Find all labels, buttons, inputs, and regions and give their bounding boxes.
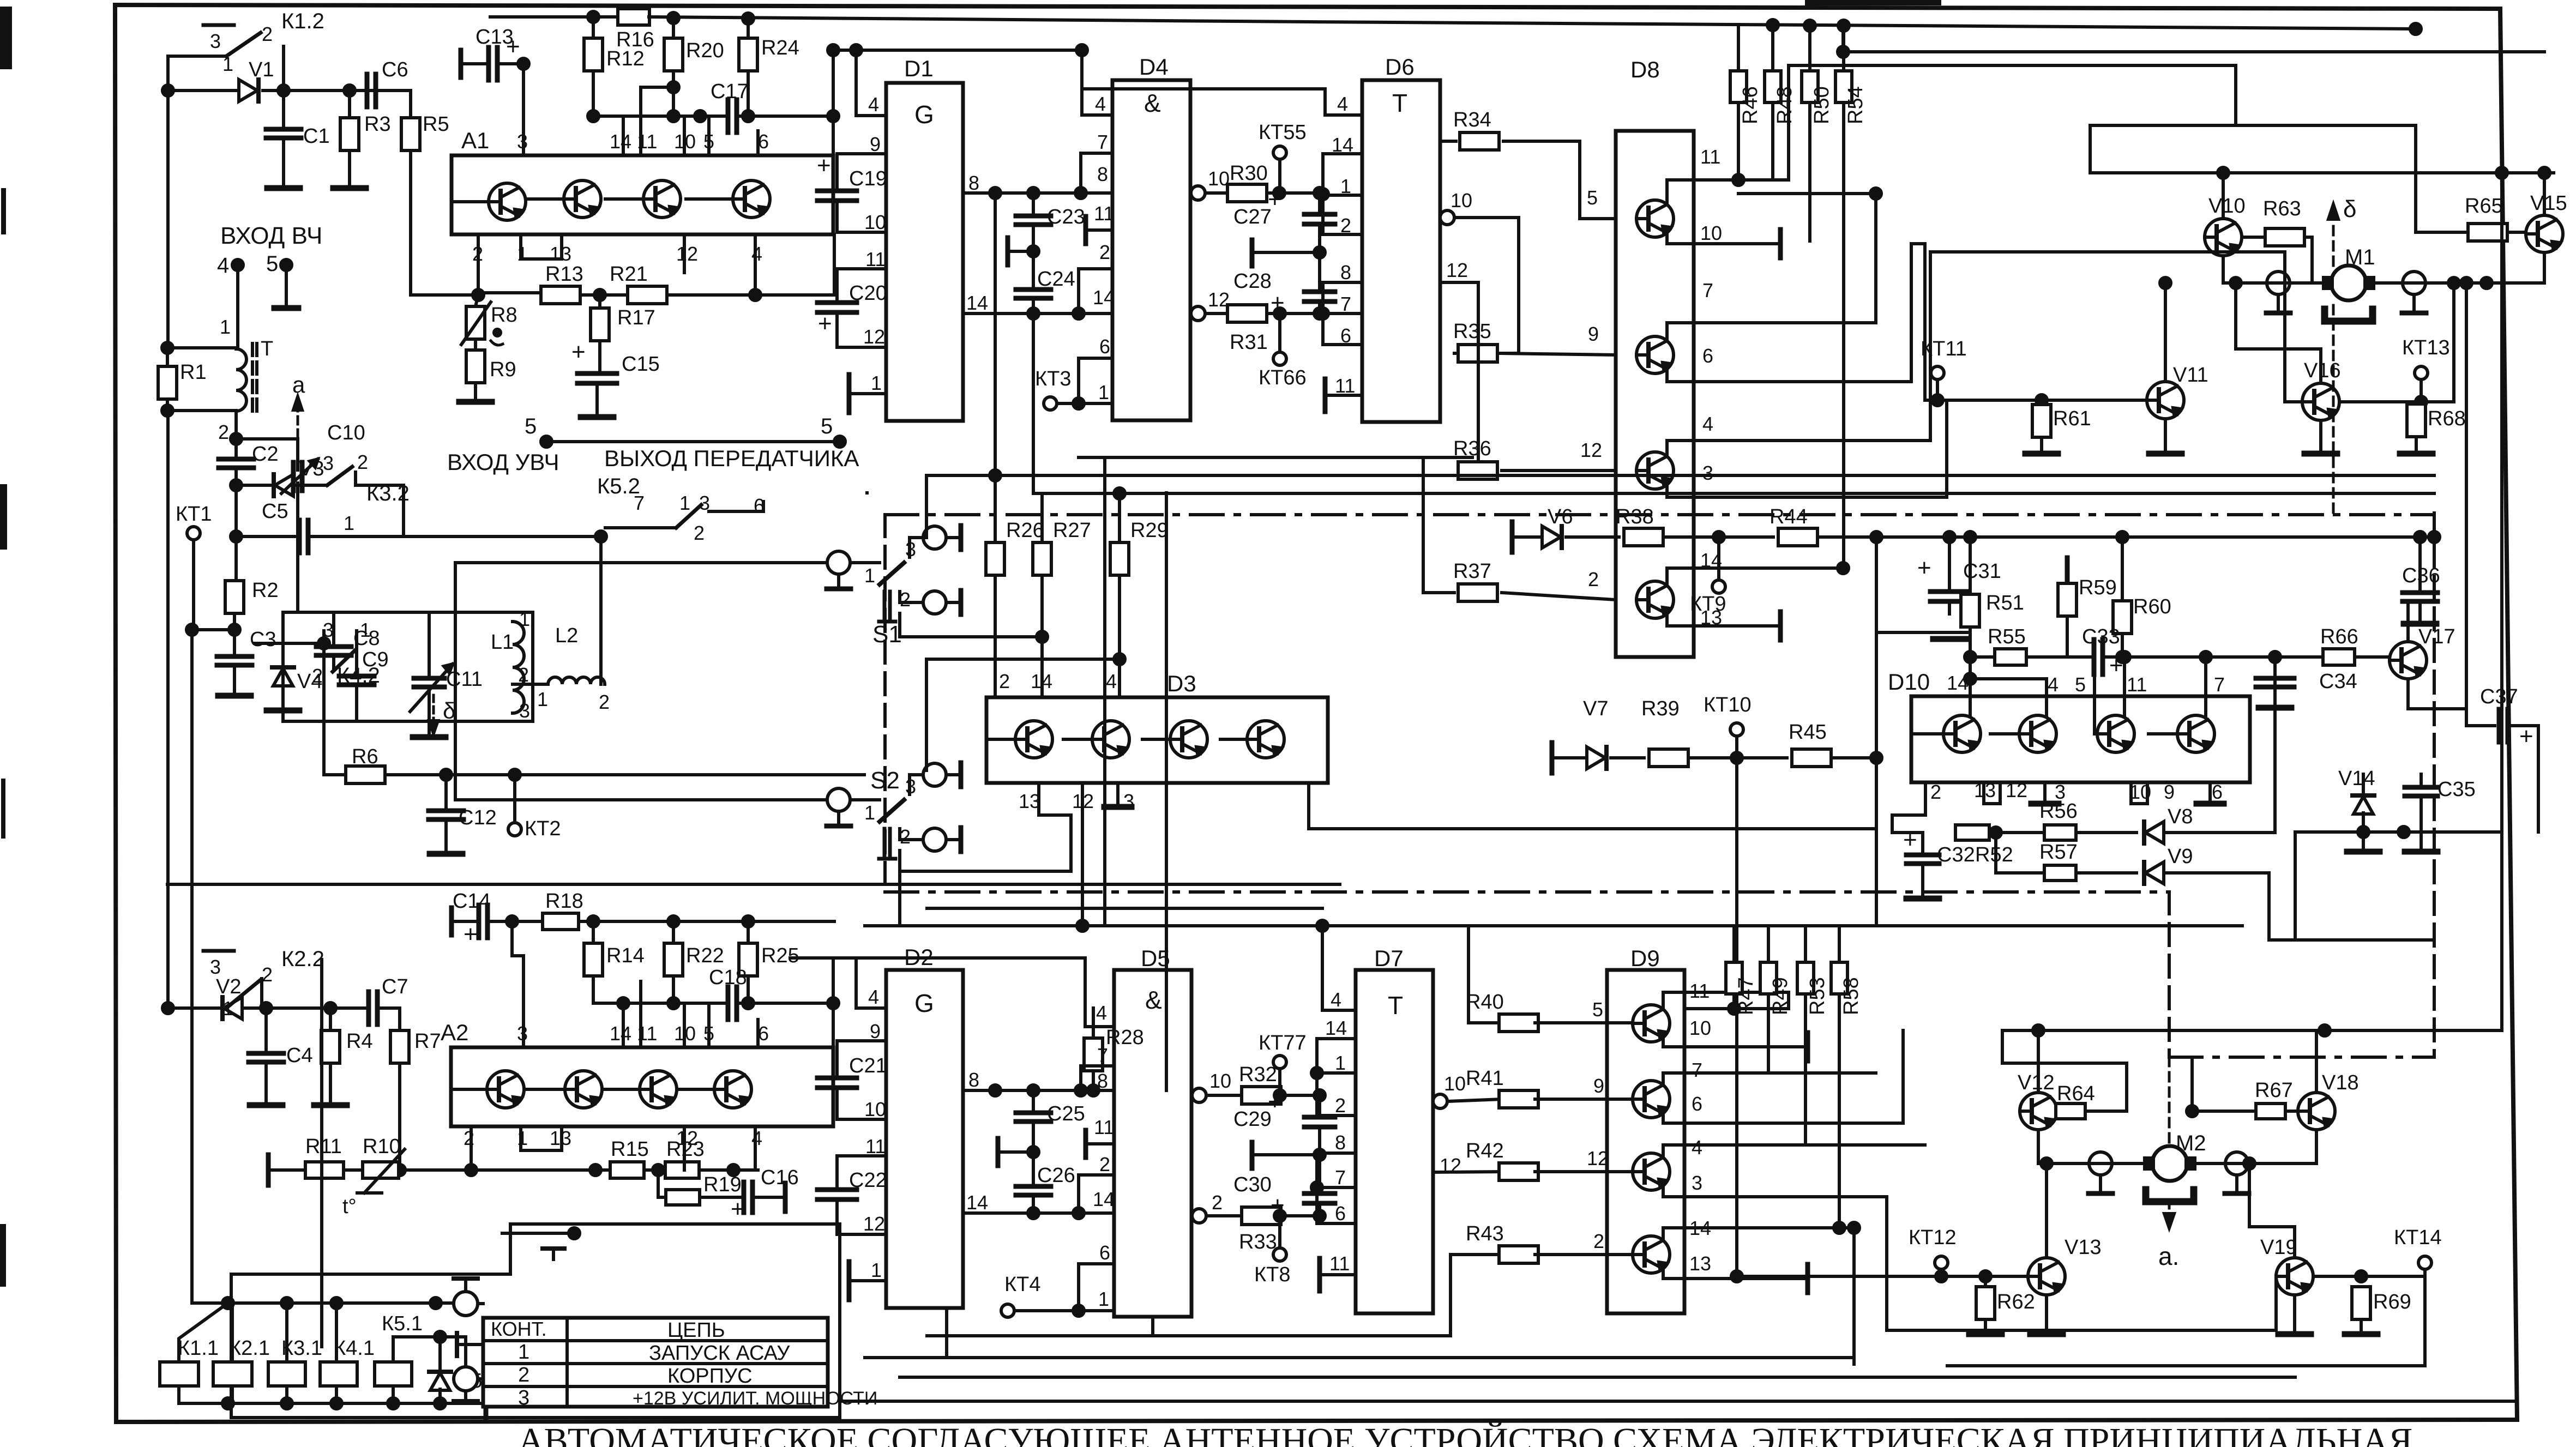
wire V15 collector bbox=[2543, 173, 2546, 215]
wire C34 bottom bbox=[2273, 688, 2277, 706]
junction bbox=[2398, 827, 2409, 837]
junction bbox=[828, 111, 839, 122]
wire R50 stem bottom bbox=[1808, 103, 1811, 241]
svg-text:C21: C21 bbox=[849, 1054, 887, 1077]
wire D7 pin7 stub bbox=[1317, 1186, 1356, 1189]
junction bbox=[2200, 652, 2211, 662]
junction bbox=[1871, 532, 1882, 542]
wire R53 stem bottom bbox=[1804, 994, 1807, 1145]
junction bbox=[1028, 1147, 1039, 1157]
ground under C34 bbox=[2259, 705, 2291, 711]
wire C3 bottom bbox=[233, 665, 236, 694]
svg-text:t°: t° bbox=[342, 1195, 357, 1218]
wire K1.2 pin2 lead bbox=[282, 46, 285, 91]
resistor R43 bbox=[1499, 1246, 1538, 1263]
wire C25-C26 tap bbox=[998, 1150, 1033, 1154]
svg-text:9: 9 bbox=[870, 1020, 881, 1042]
ground under D10 pin3 bbox=[2031, 801, 2059, 807]
ground under D10 pin6 bbox=[2196, 801, 2224, 807]
svg-text:R7: R7 bbox=[414, 1030, 441, 1053]
junction bbox=[2481, 278, 2492, 288]
wire D2 pin10 stub bbox=[837, 1118, 886, 1121]
wire R67 lead b bbox=[2286, 1110, 2298, 1113]
transistor D9 transistor 4 bbox=[1633, 1236, 1670, 1273]
svg-text:4: 4 bbox=[2048, 673, 2059, 696]
wire R20 stem top bbox=[672, 18, 675, 38]
contact K3.2 blade bbox=[327, 467, 352, 485]
svg-text:L2: L2 bbox=[555, 624, 578, 647]
svg-text:9: 9 bbox=[1593, 1075, 1604, 1097]
resistor R9 bbox=[466, 350, 485, 383]
S1 actuator bbox=[883, 592, 887, 622]
test point KT12 bbox=[1935, 1256, 1948, 1269]
svg-text:V14: V14 bbox=[2338, 767, 2375, 790]
wire R35 lead a bbox=[1454, 218, 1519, 353]
svg-text:R28: R28 bbox=[1106, 1026, 1144, 1049]
wire left edge of mid rails bbox=[865, 491, 869, 495]
svg-text:C30: C30 bbox=[1233, 1173, 1272, 1196]
wire bottom right row bbox=[1947, 1364, 2425, 1367]
junction bbox=[1871, 752, 1882, 763]
S2 lower contact bbox=[923, 828, 946, 851]
wire S2 pin3 riser bbox=[925, 659, 928, 770]
junction bbox=[750, 290, 761, 300]
wire R29 stem top bbox=[1118, 493, 1121, 542]
wire mid vertical b bbox=[1165, 493, 1168, 926]
wire R14 stem bottom bbox=[592, 976, 595, 1003]
dashed box left bbox=[883, 515, 887, 892]
motor M2 bbox=[2152, 1146, 2187, 1181]
resistor R65 bbox=[2468, 224, 2507, 241]
svg-text:КТ8: КТ8 bbox=[1254, 1263, 1290, 1286]
wire C33-R66 wire bbox=[2102, 655, 2323, 659]
D7 pin 10 circle bbox=[1433, 1094, 1447, 1108]
wire R62 bottom bbox=[1984, 1319, 1987, 1332]
wire D10 pin2 stub bbox=[1892, 782, 1925, 833]
junction bbox=[1838, 46, 1849, 57]
svg-text:G: G bbox=[914, 100, 934, 129]
svg-text:R48: R48 bbox=[1773, 86, 1796, 124]
junction bbox=[2448, 278, 2459, 288]
wire S2 wire down bbox=[898, 851, 901, 926]
junction bbox=[1073, 1305, 1084, 1316]
wire D7 pin8 stub bbox=[1317, 1151, 1356, 1155]
wire L1 tap bbox=[513, 683, 548, 686]
junction bbox=[430, 1298, 441, 1309]
capacitor C17 bbox=[726, 100, 731, 132]
wire C23 stem top bbox=[1032, 193, 1035, 215]
wire R28 stem bottom bbox=[1092, 1071, 1095, 1090]
wire C28 stem bottom bbox=[1318, 302, 1321, 313]
svg-text:4: 4 bbox=[1337, 93, 1348, 115]
junction bbox=[162, 342, 173, 353]
svg-text:R62: R62 bbox=[1997, 1291, 2035, 1313]
junction bbox=[1073, 1208, 1084, 1219]
wire R52 lead b bbox=[1989, 831, 2044, 834]
wire pin5 stub bbox=[285, 265, 288, 306]
svg-text:R58: R58 bbox=[1840, 977, 1863, 1015]
resistor R13 bbox=[541, 286, 580, 304]
wire D1 pin8 wire bbox=[963, 191, 1112, 195]
junction bbox=[588, 111, 599, 122]
svg-text:D8: D8 bbox=[1630, 57, 1660, 82]
wire D8 t3 emitter bbox=[1667, 485, 1947, 497]
svg-text:КТ66: КТ66 bbox=[1259, 366, 1307, 389]
junction bbox=[695, 111, 706, 122]
wire S2 pin3 lead bbox=[910, 775, 923, 794]
svg-text:V18: V18 bbox=[2322, 1071, 2359, 1094]
V6 input terminal bbox=[1510, 522, 1515, 552]
connector table frame bbox=[483, 1318, 828, 1407]
svg-text:КТ12: КТ12 bbox=[1909, 1226, 1957, 1249]
svg-text:R12: R12 bbox=[606, 47, 645, 70]
C25-C26 tap terminal bbox=[996, 1138, 1001, 1166]
resistor R10 bbox=[363, 1162, 399, 1178]
C16 terminal bbox=[783, 1183, 788, 1211]
svg-text:3: 3 bbox=[210, 956, 221, 978]
svg-text:C20: C20 bbox=[849, 282, 887, 305]
ground under C32 bbox=[1906, 896, 1939, 902]
wire V4 bottom bbox=[281, 686, 285, 708]
wire R26 stem top bbox=[994, 475, 997, 542]
link a dashed arrow bbox=[297, 403, 299, 436]
wire rail 5 bbox=[1945, 496, 1948, 499]
wire R7 bottom bbox=[398, 1063, 401, 1170]
svg-text:6: 6 bbox=[758, 1022, 769, 1045]
transistor D10 transistor 4 bbox=[2177, 715, 2214, 752]
wire C23-C24 tap bbox=[1008, 250, 1033, 253]
wire D5 pin4 riser bbox=[1084, 958, 1087, 1027]
diode V3 bbox=[275, 474, 293, 496]
D9 t4 emitter bar bbox=[1805, 1264, 1810, 1293]
wire C23 chain down bbox=[1033, 313, 1042, 493]
svg-text:V2: V2 bbox=[216, 975, 241, 998]
svg-text:R53: R53 bbox=[1806, 977, 1829, 1015]
junction bbox=[728, 1165, 739, 1175]
wire KT2 stem bbox=[513, 775, 516, 823]
wire D10 pin3 stub bbox=[2043, 782, 2047, 801]
IC D6 bbox=[1362, 80, 1440, 422]
wire bottom long bus 1 bbox=[927, 1334, 1450, 1337]
svg-text:C24: C24 bbox=[1037, 268, 1075, 291]
resistor R1 bbox=[158, 366, 177, 399]
svg-text:R44: R44 bbox=[1770, 505, 1808, 528]
wire R23 right bbox=[699, 1168, 758, 1172]
transistor D3 transistor 1 bbox=[1015, 721, 1052, 758]
wire V16 emitter bbox=[2319, 420, 2322, 451]
zener V5 bbox=[430, 1373, 450, 1390]
junction bbox=[2358, 827, 2369, 837]
test point KT8 bbox=[1273, 1248, 1286, 1261]
junction bbox=[1965, 532, 1976, 542]
svg-text:7: 7 bbox=[1340, 293, 1351, 315]
wire V9 right bbox=[2166, 873, 2434, 940]
svg-text:R34: R34 bbox=[1453, 108, 1491, 131]
junction bbox=[1114, 654, 1125, 665]
table column divider bbox=[565, 1318, 569, 1407]
wire KT1 stem bbox=[192, 540, 195, 630]
test point KT5 bbox=[1273, 146, 1286, 159]
svg-text:К1.1: К1.1 bbox=[178, 1337, 219, 1360]
D5 pin 10 circle bbox=[1192, 1088, 1206, 1102]
resistor R50 bbox=[1802, 71, 1818, 103]
transistor V13 bbox=[2028, 1258, 2065, 1295]
svg-text:5: 5 bbox=[821, 414, 833, 438]
svg-text:R52: R52 bbox=[1975, 843, 2013, 866]
junction bbox=[1314, 308, 1325, 319]
junction bbox=[261, 1003, 272, 1014]
wire C14 riser bbox=[512, 921, 523, 956]
connector section box bbox=[231, 1224, 840, 1418]
wire C7 right bbox=[377, 1008, 400, 1030]
wire rail 3 bbox=[1738, 192, 1876, 195]
wire C13 left lead bbox=[461, 62, 487, 65]
resistor R30 bbox=[1227, 184, 1267, 202]
wire C5 row right bbox=[308, 535, 404, 538]
svg-text:R26: R26 bbox=[1006, 519, 1044, 542]
ground under R61 bbox=[2025, 451, 2058, 457]
svg-text:7: 7 bbox=[1097, 131, 1108, 153]
svg-text:R4: R4 bbox=[346, 1030, 373, 1053]
svg-text:R42: R42 bbox=[1466, 1139, 1504, 1162]
wire C4 stem bbox=[264, 1008, 268, 1052]
svg-text:КТ14: КТ14 bbox=[2394, 1226, 2442, 1249]
wire R67 lead a bbox=[2192, 1110, 2256, 1113]
resistor R7 bbox=[390, 1030, 409, 1063]
junction bbox=[990, 188, 1001, 198]
svg-text:1: 1 bbox=[517, 243, 528, 265]
svg-text:R39: R39 bbox=[1641, 697, 1680, 720]
resistor R36 bbox=[1458, 462, 1497, 479]
svg-text:2: 2 bbox=[1588, 568, 1599, 590]
junction bbox=[1804, 20, 1815, 31]
wire R41 lead a bbox=[1447, 1099, 1502, 1101]
junction bbox=[2218, 167, 2229, 178]
svg-text:14: 14 bbox=[1093, 1188, 1115, 1210]
relay bus terminal bbox=[484, 1388, 489, 1419]
svg-text:1: 1 bbox=[360, 619, 371, 641]
capacitor C10 bbox=[291, 462, 296, 491]
svg-text:10: 10 bbox=[864, 211, 886, 233]
wire R39-R45 bbox=[1688, 756, 1787, 759]
svg-text:D2: D2 bbox=[904, 944, 934, 970]
wire R34 lead a bbox=[1440, 140, 1456, 143]
wire K4.2 pin3 lead bbox=[322, 631, 326, 643]
wire R5 to R13 row bbox=[411, 150, 478, 295]
wire C14 left lead bbox=[452, 920, 477, 923]
svg-text:9: 9 bbox=[870, 133, 881, 155]
wire R11-R10 bbox=[344, 1168, 361, 1172]
svg-text:R66: R66 bbox=[2320, 625, 2358, 648]
svg-text:C6: C6 bbox=[382, 58, 408, 81]
transistor A1 transistor 1 bbox=[489, 183, 526, 220]
svg-text:8: 8 bbox=[968, 172, 979, 194]
svg-text:1: 1 bbox=[519, 608, 530, 630]
transistor V19 bbox=[2276, 1258, 2313, 1295]
diode V6 bbox=[1542, 526, 1561, 548]
svg-text:11: 11 bbox=[865, 1135, 886, 1157]
transistor D8 transistor 1 bbox=[1636, 200, 1674, 237]
svg-text:14: 14 bbox=[610, 130, 631, 153]
capacitor C35 bbox=[2405, 785, 2437, 790]
svg-text:8: 8 bbox=[1097, 1070, 1108, 1092]
wire V12 collector bbox=[2037, 1030, 2040, 1093]
wire A1 pin4 stub bbox=[754, 234, 757, 295]
transistor A1 transistor 3 bbox=[643, 180, 681, 218]
wire R12 stem bottom bbox=[592, 71, 595, 116]
wire D6 pin4 stub bbox=[1325, 113, 1362, 117]
wire D10 pin11 riser bbox=[2123, 657, 2126, 715]
D1 pin1 terminal bbox=[847, 375, 852, 413]
wire R65 lead b bbox=[2511, 231, 2526, 234]
junction bbox=[1965, 673, 1976, 684]
capacitor C28 bbox=[1304, 290, 1335, 294]
wire C9 bottom bbox=[355, 685, 358, 721]
wire D2 pin8 wire bbox=[963, 1089, 1114, 1092]
wire R43 lead a bbox=[1450, 1253, 1502, 1256]
svg-text:V3: V3 bbox=[299, 457, 324, 480]
wire R51 stem top bbox=[1969, 537, 1972, 594]
svg-text:C5: C5 bbox=[262, 500, 288, 523]
wire R64 lead a bbox=[2056, 1110, 2057, 1113]
wire C26 stem bottom bbox=[1032, 1196, 1035, 1213]
resistor R23 bbox=[665, 1162, 699, 1178]
wire D5 pin4 stub bbox=[1085, 1025, 1114, 1028]
wire right row leg bbox=[2294, 832, 2297, 940]
wire R5 feed bbox=[409, 91, 412, 119]
svg-text:11: 11 bbox=[1094, 1116, 1114, 1138]
svg-text:6: 6 bbox=[758, 130, 769, 153]
wire C12 bottom bbox=[444, 820, 448, 852]
capacitor C1 bbox=[266, 127, 301, 132]
R11 input terminal bbox=[266, 1155, 271, 1185]
svg-text:a: a bbox=[292, 372, 305, 397]
svg-text:C35: C35 bbox=[2437, 778, 2476, 801]
wire D2 pin12 stub bbox=[837, 1233, 886, 1236]
svg-text:2: 2 bbox=[900, 588, 911, 611]
wire D8 t4 collector bbox=[1667, 568, 1843, 586]
zener V14 bbox=[2354, 797, 2373, 814]
wire C10 to box bbox=[296, 483, 299, 612]
test point KT14 bbox=[2418, 1256, 2431, 1269]
capacitor C15 bbox=[577, 371, 617, 376]
wire C18 row left bbox=[593, 1002, 724, 1005]
svg-text:12: 12 bbox=[1587, 1147, 1609, 1169]
brush terminal M2 left brush bbox=[2089, 1152, 2112, 1175]
wire D8 t3 collector bbox=[1667, 441, 1930, 456]
wire R22 stem top bbox=[672, 921, 675, 943]
S1 upper contact bbox=[923, 526, 946, 549]
junction bbox=[743, 916, 754, 927]
resonant circuit box bbox=[283, 612, 533, 721]
junction bbox=[2496, 167, 2507, 178]
capacitor C8 bbox=[316, 644, 351, 649]
svg-text:R67: R67 bbox=[2255, 1079, 2293, 1102]
wire V10 collector bbox=[2222, 173, 2225, 219]
wire KT3 lead bbox=[1057, 402, 1079, 405]
svg-text:R65: R65 bbox=[2465, 195, 2503, 218]
wire KT1 long vertical bbox=[190, 630, 194, 1303]
wire C11 ground stem bbox=[428, 721, 431, 735]
wire KT9 stem bbox=[1717, 537, 1720, 580]
resistor R40 bbox=[1499, 1014, 1538, 1032]
svg-text:R35: R35 bbox=[1453, 320, 1491, 343]
wire KT12 row left bbox=[1737, 1275, 1941, 1278]
svg-text:R10: R10 bbox=[363, 1135, 401, 1158]
wire mid vertical 2139 lower bbox=[1165, 926, 1168, 1090]
resistor R48 bbox=[1765, 71, 1781, 103]
junction bbox=[1314, 247, 1325, 258]
svg-text:7: 7 bbox=[1702, 279, 1713, 302]
capacitor C29 bbox=[1304, 1115, 1335, 1120]
wire K1.1 stem bbox=[179, 1303, 228, 1362]
wire KT6 stem bbox=[1278, 313, 1281, 352]
ground under C36 bbox=[2404, 621, 2436, 627]
wire C2-R2 link bbox=[234, 485, 238, 582]
wire S1 pin3 riser bbox=[925, 475, 928, 538]
resistor R15 bbox=[610, 1162, 644, 1178]
wire R49 stem bottom bbox=[1767, 994, 1770, 1073]
wire R27 stem top bbox=[1040, 493, 1044, 542]
resistor R55 bbox=[1995, 649, 2026, 665]
wire R1 top bbox=[166, 348, 169, 366]
svg-text:К2.2: К2.2 bbox=[281, 947, 324, 971]
wire pin4 to T bbox=[236, 265, 239, 348]
wire A1 pin14 riser bbox=[622, 116, 625, 155]
wire K2.2 left lead bbox=[168, 1006, 226, 1010]
svg-text:11: 11 bbox=[1094, 202, 1114, 225]
junction bbox=[1028, 1085, 1039, 1096]
svg-text:6: 6 bbox=[1335, 1202, 1346, 1225]
wire V13 base row bbox=[1941, 1275, 2028, 1278]
wire V19 emitter bbox=[2293, 1295, 2296, 1332]
wire R47 stem top bbox=[1732, 926, 1736, 962]
test point KT6 bbox=[1273, 352, 1286, 365]
wire KT14 stem bbox=[2423, 1269, 2427, 1276]
wire R4 bottom bbox=[329, 1063, 332, 1103]
wire V6 lead bbox=[1512, 535, 1542, 539]
wire A2 pin3 riser bbox=[522, 956, 525, 1047]
wire D3 t3 base bbox=[1142, 738, 1170, 741]
wire D10 pin5 riser bbox=[2094, 661, 2097, 734]
junction bbox=[2319, 1025, 2330, 1036]
junction bbox=[1274, 188, 1285, 198]
wire right row 1526 bbox=[2295, 830, 2502, 834]
S1 lower contact bbox=[923, 591, 946, 614]
svg-text:D9: D9 bbox=[1630, 945, 1660, 971]
wire R56-V8 bbox=[2076, 831, 2136, 834]
wire V19 base row bbox=[2313, 1275, 2425, 1278]
wire R44 right bbox=[1817, 535, 2434, 539]
transistor V11 bbox=[2147, 382, 2184, 419]
svg-text:1: 1 bbox=[864, 564, 875, 587]
svg-text:3: 3 bbox=[1702, 462, 1713, 484]
ground under C4 bbox=[250, 1102, 282, 1108]
junction bbox=[2117, 532, 2128, 542]
wire under-box link bbox=[1103, 457, 1106, 926]
junction bbox=[990, 1085, 1001, 1096]
svg-text:3: 3 bbox=[323, 452, 334, 474]
wire V18 collector bbox=[2315, 1030, 2318, 1093]
svg-text:R41: R41 bbox=[1466, 1067, 1504, 1090]
resistor R33 bbox=[1242, 1207, 1281, 1225]
svg-text:2: 2 bbox=[464, 1127, 474, 1149]
wire C26 stem b bbox=[1032, 1152, 1035, 1186]
capacitor C30 bbox=[1304, 1191, 1335, 1196]
wire A2 pin4 stub bbox=[754, 1126, 757, 1170]
svg-text:1: 1 bbox=[537, 688, 548, 710]
IC D1 bbox=[886, 83, 963, 421]
